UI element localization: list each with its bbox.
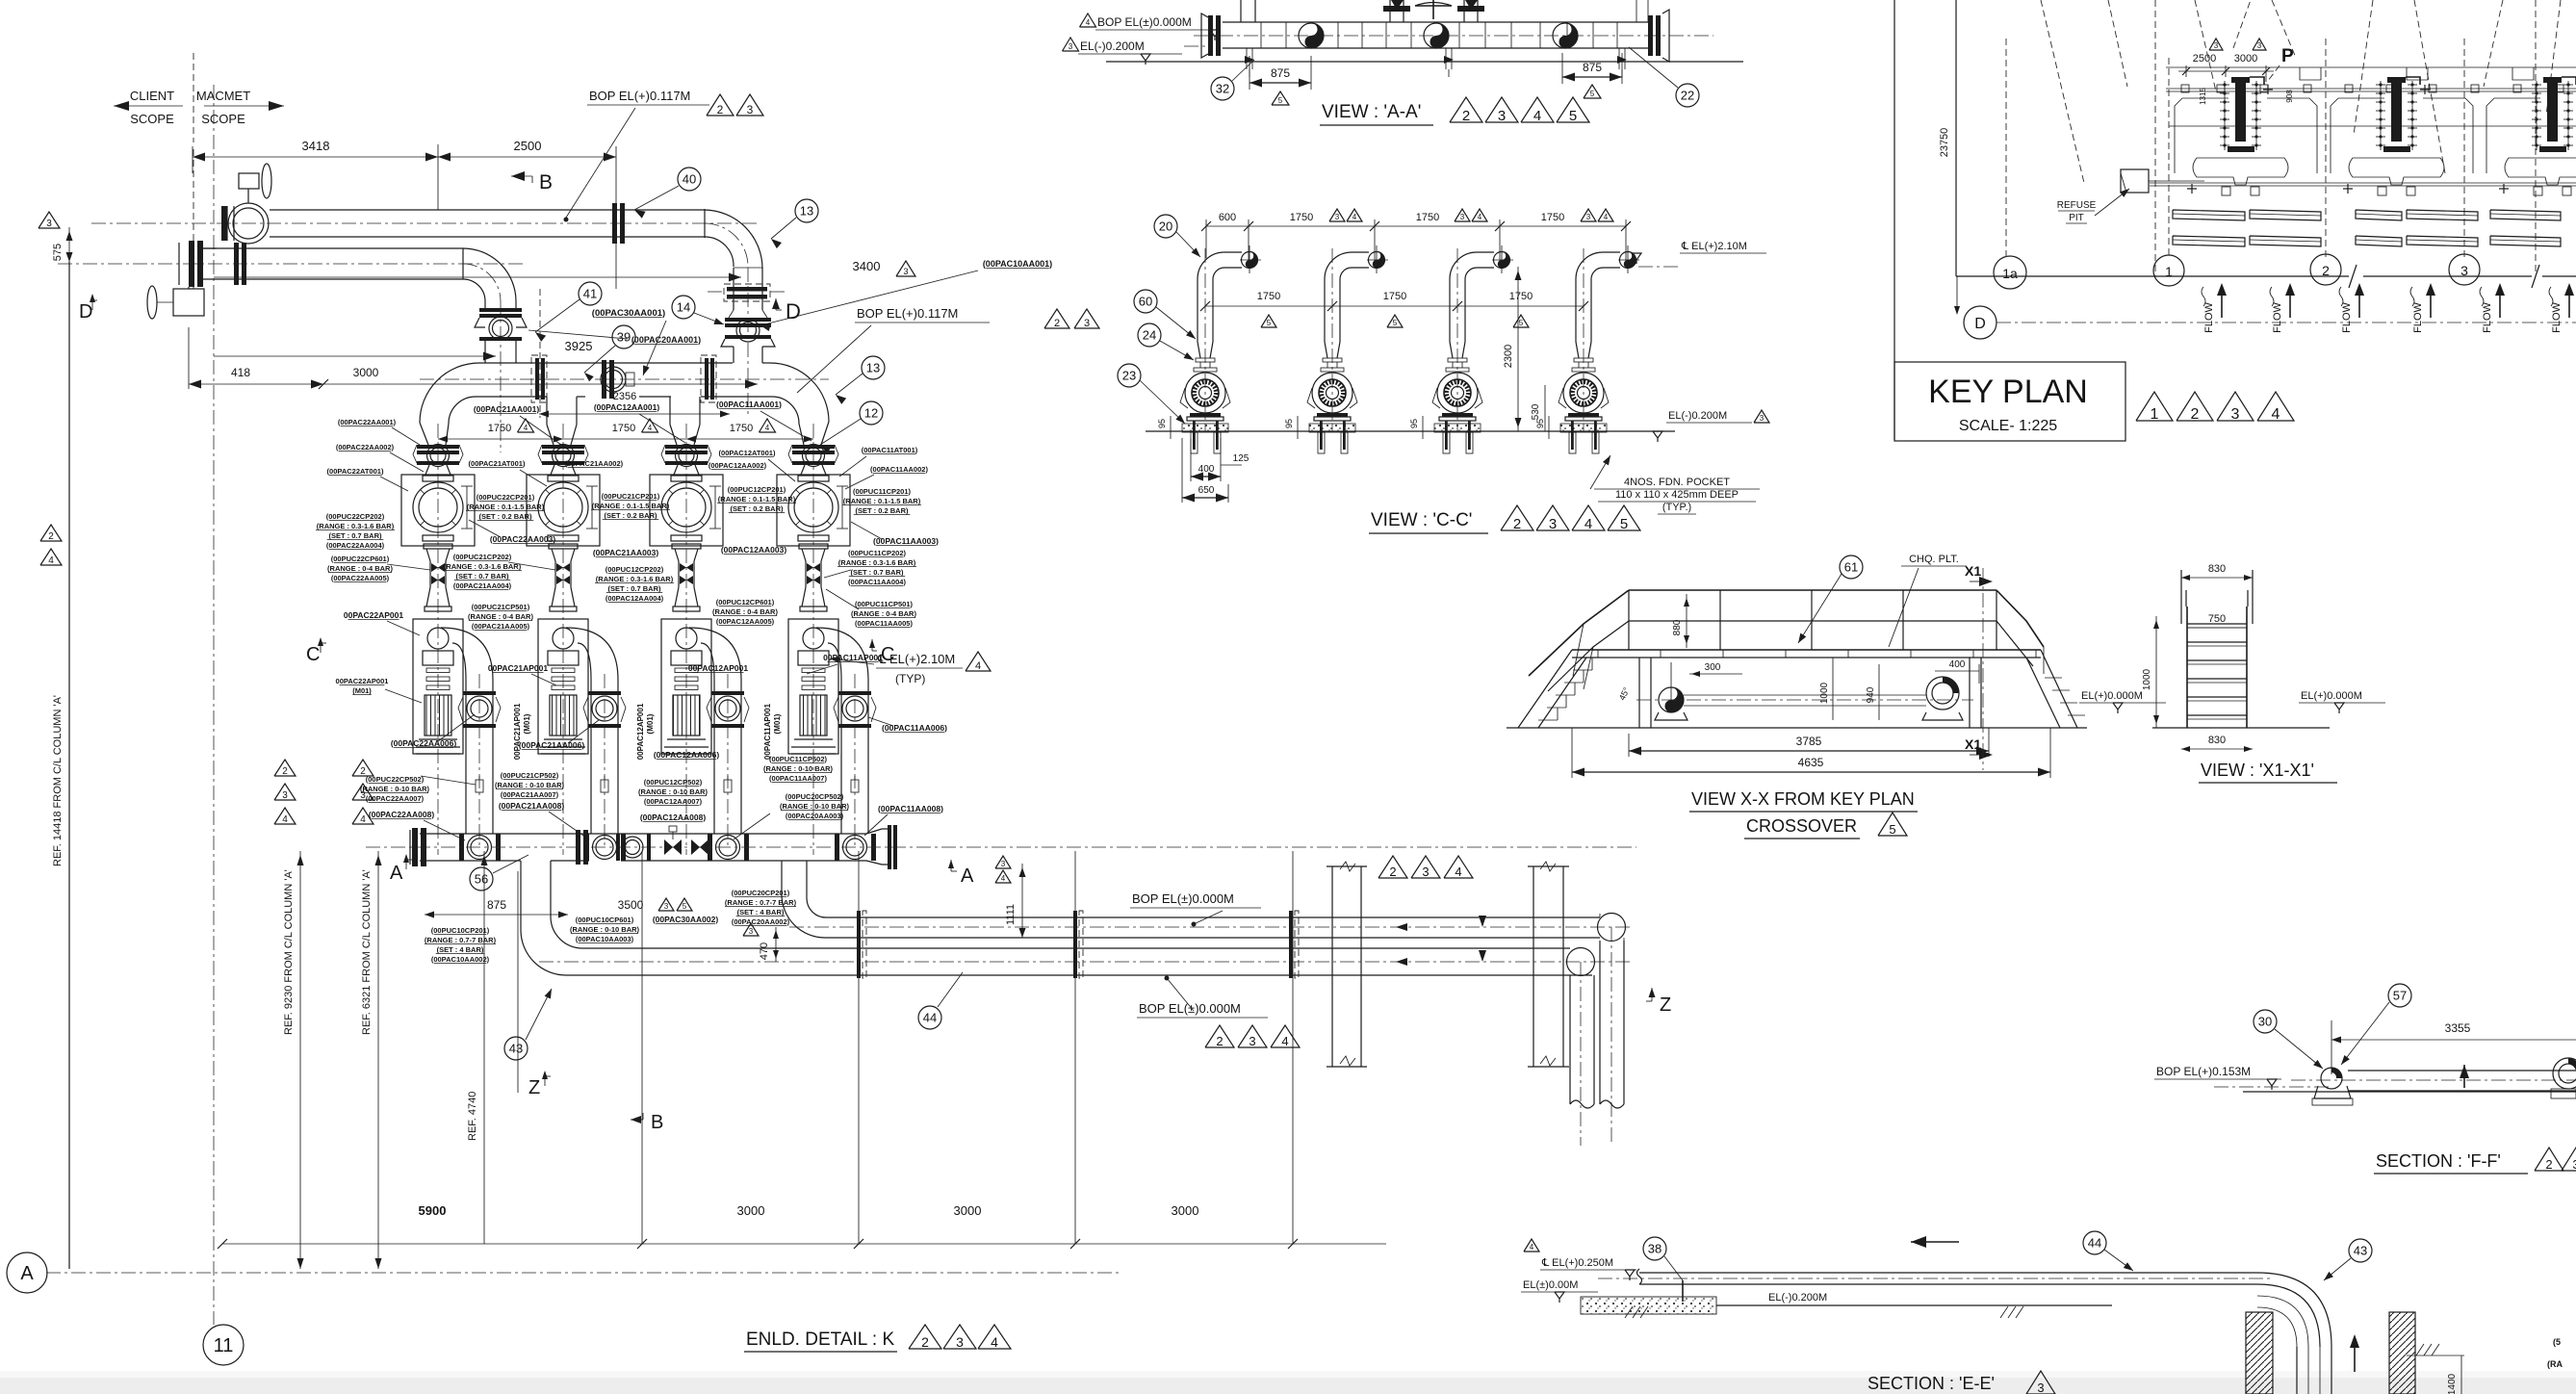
svg-text:VIEW : 'X1-X1': VIEW : 'X1-X1' bbox=[2201, 761, 2314, 780]
svg-text:44: 44 bbox=[923, 1011, 937, 1025]
svg-text:(RANGE : 0.3-1.6 BAR): (RANGE : 0.3-1.6 BAR) bbox=[317, 522, 395, 530]
crossover deck bbox=[1572, 649, 2041, 651]
svg-text:(00PAC11AA001): (00PAC11AA001) bbox=[716, 400, 782, 409]
svg-text:3: 3 bbox=[1422, 865, 1429, 879]
svg-text:4: 4 bbox=[1584, 516, 1592, 532]
crossover pipes below deck bbox=[1659, 687, 1684, 712]
svg-text:EL(-)0.200M: EL(-)0.200M bbox=[1668, 410, 1727, 422]
upper pipe vertical drop in plan bbox=[1599, 941, 1601, 1104]
train 12 inlet valve bbox=[665, 445, 708, 449]
svg-text:32: 32 bbox=[1216, 82, 1229, 96]
svg-text:(00PAC22AA002): (00PAC22AA002) bbox=[336, 443, 395, 452]
svg-text:300: 300 bbox=[1705, 662, 1721, 673]
view A-A weld ticks bbox=[1260, 22, 1262, 48]
svg-text:5: 5 bbox=[1889, 822, 1895, 837]
svg-text:C: C bbox=[306, 644, 320, 665]
balloon 44 bbox=[918, 1006, 941, 1029]
support column pair 1 bbox=[1331, 866, 1333, 1067]
svg-text:(SET : 0.2 BAR): (SET : 0.2 BAR) bbox=[478, 512, 532, 521]
svg-text:(00PAC11AT001): (00PAC11AT001) bbox=[862, 446, 918, 454]
svg-text:1a: 1a bbox=[2002, 266, 2018, 281]
train 21 discharge riser bbox=[590, 680, 592, 834]
train 12 discharge riser bbox=[713, 680, 715, 834]
svg-text:24: 24 bbox=[1143, 328, 1156, 343]
svg-text:(00PUC11CP201): (00PUC11CP201) bbox=[853, 487, 912, 496]
svg-text:CHQ. PLT.: CHQ. PLT. bbox=[1909, 554, 1959, 565]
section F-F pipe bbox=[2348, 1070, 2576, 1071]
svg-text:D: D bbox=[79, 301, 92, 323]
svg-text:22: 22 bbox=[1681, 89, 1694, 103]
svg-text:(00PAC12AA002): (00PAC12AA002) bbox=[708, 461, 767, 470]
svg-text:(RANGE : 0.3-1.6 BAR): (RANGE : 0.3-1.6 BAR) bbox=[596, 575, 674, 583]
svg-text:KEY PLAN: KEY PLAN bbox=[1928, 374, 2088, 410]
svg-text:(00PAC21AA006): (00PAC21AA006) bbox=[519, 740, 585, 750]
svg-text:(00PAC11AA002): (00PAC11AA002) bbox=[870, 465, 928, 474]
svg-text:2500: 2500 bbox=[514, 139, 542, 153]
section E-E foundation block bbox=[1581, 1297, 1716, 1314]
valve 39 on header bbox=[602, 360, 606, 399]
svg-text:00PAC11AP001: 00PAC11AP001 bbox=[763, 703, 772, 760]
marker D right bbox=[772, 298, 780, 309]
balloon 60 bbox=[1134, 290, 1157, 313]
svg-text:1750: 1750 bbox=[730, 423, 753, 434]
crossover dim 4635 bbox=[1571, 728, 1573, 778]
train 11 flow element box bbox=[777, 475, 850, 546]
svg-text:3: 3 bbox=[956, 1334, 964, 1350]
svg-text:4: 4 bbox=[1533, 108, 1541, 124]
view C-C dim 530 bbox=[1544, 385, 1546, 431]
train 11 riser valve bbox=[842, 696, 867, 721]
svg-text:400: 400 bbox=[1949, 659, 1966, 670]
svg-text:875: 875 bbox=[1583, 61, 1602, 74]
balloon 12 bbox=[860, 401, 883, 425]
svg-text:(00PUC22CP502): (00PUC22CP502) bbox=[366, 775, 425, 784]
train 21 manifold entry valve bbox=[584, 834, 589, 861]
svg-text:40: 40 bbox=[683, 172, 696, 187]
svg-text:(00PAC20AA002): (00PAC20AA002) bbox=[732, 917, 790, 926]
balloon 44 bbox=[2083, 1231, 2106, 1254]
key plan D grid line bbox=[1996, 322, 2576, 323]
section F-F left pipe shoe bbox=[2321, 1068, 2342, 1089]
svg-text:(00PUC10CP201): (00PUC10CP201) bbox=[431, 926, 490, 935]
pump train 12 centerline bbox=[685, 424, 687, 855]
pump train 22 centerline bbox=[437, 424, 439, 855]
svg-text:5: 5 bbox=[683, 902, 687, 911]
svg-text:00PAC12AP001: 00PAC12AP001 bbox=[636, 703, 645, 760]
svg-text:(00PAC22AA008): (00PAC22AA008) bbox=[369, 810, 435, 819]
svg-text:3: 3 bbox=[1586, 213, 1591, 221]
svg-text:BOP EL(±)0.000M: BOP EL(±)0.000M bbox=[1132, 891, 1234, 906]
C-C discharge stub circle at 1645 bbox=[1620, 252, 1636, 269]
svg-text:A: A bbox=[961, 865, 974, 887]
svg-text:SECTION : 'F-F': SECTION : 'F-F' bbox=[2376, 1151, 2501, 1171]
svg-text:3000: 3000 bbox=[353, 366, 379, 379]
view C-C dims below pump1 bbox=[1190, 438, 1192, 481]
svg-text:3418: 3418 bbox=[302, 139, 330, 153]
key plan pit outflow line bbox=[2150, 182, 2576, 184]
weld tick lower pipe bbox=[462, 248, 464, 279]
manifold fittings between valves bbox=[622, 837, 643, 858]
svg-text:5: 5 bbox=[1393, 319, 1398, 327]
svg-text:(M01): (M01) bbox=[352, 686, 372, 695]
svg-text:00PAC22AP001: 00PAC22AP001 bbox=[344, 610, 403, 620]
balloon 57 bbox=[2388, 984, 2411, 1007]
svg-text:FLOW: FLOW bbox=[2482, 301, 2493, 332]
svg-text:(00PAC12AA008): (00PAC12AA008) bbox=[640, 813, 707, 822]
view C-C dim row 1750 second bbox=[1205, 305, 1584, 307]
svg-text:(M01): (M01) bbox=[646, 713, 655, 734]
svg-text:20: 20 bbox=[1159, 219, 1172, 234]
svg-text:EL(-)0.200M: EL(-)0.200M bbox=[1080, 39, 1145, 53]
svg-text:5: 5 bbox=[1620, 516, 1628, 532]
key plan title box bbox=[1894, 362, 2125, 441]
svg-text:CROSSOVER: CROSSOVER bbox=[1746, 816, 1857, 836]
train 11 top drop bbox=[799, 424, 804, 445]
svg-text:41: 41 bbox=[583, 287, 597, 301]
svg-text:(SET : 4 BAR): (SET : 4 BAR) bbox=[437, 945, 484, 954]
svg-text:3000: 3000 bbox=[2234, 53, 2257, 65]
svg-text:3000: 3000 bbox=[1172, 1203, 1199, 1218]
X1-X1 dims bbox=[2181, 577, 2253, 579]
scope divider dash line bbox=[193, 149, 194, 289]
pipe 40 upper centerline bbox=[91, 222, 760, 224]
svg-text:56: 56 bbox=[475, 872, 488, 887]
svg-text:650: 650 bbox=[1198, 485, 1215, 496]
svg-text:2500: 2500 bbox=[2193, 53, 2216, 65]
svg-text:(00PAC12AA003): (00PAC12AA003) bbox=[721, 545, 787, 555]
svg-text:875: 875 bbox=[1271, 66, 1290, 80]
view A-A drains below pipe bbox=[1246, 48, 1248, 69]
C-C foundation pockets at 1384 bbox=[1318, 432, 1325, 453]
balloon 23 bbox=[1118, 364, 1141, 387]
svg-text:470: 470 bbox=[759, 942, 770, 960]
svg-text:125: 125 bbox=[1233, 453, 1249, 464]
svg-text:(00PAC21AA001): (00PAC21AA001) bbox=[474, 404, 540, 414]
train 12 outlet taper and control valves bbox=[672, 544, 701, 549]
C-C pump base at 1252 bbox=[1190, 413, 1221, 417]
svg-text:(SET : 4 BAR): (SET : 4 BAR) bbox=[737, 908, 785, 916]
svg-text:(SET : 0.7 BAR): (SET : 0.7 BAR) bbox=[328, 531, 382, 540]
svg-text:(TYP): (TYP) bbox=[895, 672, 925, 685]
train 11 discharge riser bbox=[840, 680, 842, 834]
svg-text:00PAC21AP001: 00PAC21AP001 bbox=[513, 703, 522, 760]
svg-text:BOP EL(+)0.117M: BOP EL(+)0.117M bbox=[857, 306, 958, 321]
svg-text:Z: Z bbox=[1660, 994, 1671, 1016]
svg-text:(SET : 0.2 BAR): (SET : 0.2 BAR) bbox=[730, 504, 784, 513]
svg-text:23: 23 bbox=[1122, 369, 1136, 383]
svg-text:(RANGE : 0.7-7 BAR): (RANGE : 0.7-7 BAR) bbox=[725, 898, 797, 907]
svg-text:(00PAC12AA006): (00PAC12AA006) bbox=[654, 750, 720, 760]
svg-text:BOP EL(+)0.153M: BOP EL(+)0.153M bbox=[2156, 1065, 2251, 1078]
balloon 40 bbox=[678, 168, 701, 191]
svg-text:BOP EL(+)0.117M: BOP EL(+)0.117M bbox=[589, 89, 690, 103]
svg-text:D: D bbox=[786, 299, 801, 323]
C-C pump riser at 1384 bbox=[1325, 252, 1369, 279]
svg-text:X1: X1 bbox=[1965, 736, 1981, 752]
svg-text:4: 4 bbox=[1530, 1243, 1534, 1252]
svg-text:(M01): (M01) bbox=[523, 713, 531, 734]
svg-text:3: 3 bbox=[1498, 108, 1506, 124]
svg-text:95: 95 bbox=[1157, 419, 1167, 428]
pump 22AP001 vertical inline pump bbox=[413, 619, 463, 754]
svg-text:13: 13 bbox=[800, 204, 813, 219]
key plan conveyor bands row2 bbox=[2173, 236, 2245, 246]
svg-text:(RANGE : 0.1-1.5 BAR): (RANGE : 0.1-1.5 BAR) bbox=[843, 497, 921, 505]
svg-text:(00PUC20CP502): (00PUC20CP502) bbox=[786, 792, 844, 801]
section F-F ground bbox=[2243, 1091, 2576, 1093]
C-C pump riser at 1252 bbox=[1198, 252, 1242, 279]
svg-text:00PAC11AP001: 00PAC11AP001 bbox=[823, 653, 883, 662]
svg-text:(SET : 0.2 BAR): (SET : 0.2 BAR) bbox=[604, 511, 657, 520]
dim 3925 bbox=[214, 355, 496, 357]
section F-F flow arrow bbox=[2460, 1065, 2469, 1078]
view A-A centre gate valve handwheel bbox=[1432, 0, 1434, 19]
svg-text:1750: 1750 bbox=[1383, 291, 1406, 302]
svg-text:(RANGE : 0.1-1.5 BAR): (RANGE : 0.1-1.5 BAR) bbox=[592, 502, 670, 510]
svg-text:B: B bbox=[651, 1112, 663, 1133]
svg-text:(SET : 0.7 BAR): (SET : 0.7 BAR) bbox=[607, 584, 661, 593]
svg-text:PIT: PIT bbox=[2069, 213, 2084, 223]
svg-text:(RANGE : 0-10 BAR): (RANGE : 0-10 BAR) bbox=[638, 787, 708, 796]
cluster funnel bbox=[2505, 158, 2576, 185]
valve 14 butterfly on drop bbox=[729, 310, 734, 318]
section E-E flow arrow left bbox=[1911, 1241, 1959, 1243]
balloon 30 bbox=[2254, 1010, 2277, 1033]
svg-text:(00PAC11AA007): (00PAC11AA007) bbox=[769, 774, 827, 783]
svg-text:3: 3 bbox=[1069, 42, 1073, 51]
manifold right drop bbox=[781, 861, 783, 894]
pipe 40 elbow down (item 13) bbox=[705, 210, 762, 269]
flange on pipe 40 at x640 bbox=[612, 203, 617, 244]
train 11 manifold entry valve bbox=[835, 834, 839, 861]
train 12 manifold entry valve bbox=[708, 834, 712, 861]
svg-text:(00PUC22CP201): (00PUC22CP201) bbox=[477, 493, 535, 502]
svg-text:BOP EL(±)0.000M: BOP EL(±)0.000M bbox=[1139, 1001, 1241, 1016]
triangles 2 4 left bbox=[40, 525, 62, 541]
manifold right end bbox=[866, 829, 888, 834]
svg-text:C: C bbox=[881, 644, 894, 665]
train 22 inlet valve bbox=[417, 445, 459, 449]
svg-text:EL(-)0.200M: EL(-)0.200M bbox=[1768, 1292, 1827, 1304]
svg-text:(RANGE : 0.3-1.6 BAR): (RANGE : 0.3-1.6 BAR) bbox=[838, 558, 916, 567]
section marker A right bbox=[948, 860, 954, 868]
key plan top edge tabs bbox=[2166, 66, 2576, 68]
long pipe lower run bbox=[566, 974, 1592, 976]
section E-E 1400 dim bbox=[2460, 1355, 2462, 1394]
marker C right bbox=[869, 639, 875, 648]
svg-text:(5: (5 bbox=[2553, 1337, 2561, 1347]
balloon 22 bbox=[1676, 84, 1699, 107]
svg-text:30: 30 bbox=[2258, 1015, 2272, 1029]
svg-text:(00PAC12AA004): (00PAC12AA004) bbox=[605, 594, 664, 603]
svg-text:VIEW X-X FROM KEY PLAN: VIEW X-X FROM KEY PLAN bbox=[1691, 789, 1915, 809]
svg-text:℄ EL(+)0.250M: ℄ EL(+)0.250M bbox=[1541, 1257, 1613, 1269]
train 22 outlet taper and control valves bbox=[424, 544, 452, 549]
section E-E downcomers bbox=[2296, 1347, 2298, 1394]
support column pair 2 bbox=[1533, 866, 1534, 1067]
train 12 riser instrument tap bbox=[724, 780, 732, 792]
svg-text:4: 4 bbox=[991, 1334, 998, 1350]
svg-text:4: 4 bbox=[360, 814, 366, 825]
ref 4740 dim line bbox=[483, 851, 485, 1244]
flange on lower pipe x248 bbox=[234, 243, 239, 285]
svg-text:3: 3 bbox=[1760, 414, 1765, 423]
svg-text:1750: 1750 bbox=[1290, 212, 1313, 223]
pipe 44 lower run bbox=[203, 247, 463, 249]
svg-text:13: 13 bbox=[866, 361, 880, 375]
key plan conveyor bands row1 bbox=[2173, 210, 2245, 220]
key plan outer west wall bbox=[1955, 0, 1957, 276]
train 12 discharge elbow bbox=[689, 628, 741, 680]
C-C pump base at 1645 bbox=[1568, 413, 1599, 417]
svg-text:3: 3 bbox=[1460, 213, 1465, 221]
svg-text:1400: 1400 bbox=[2447, 1373, 2458, 1394]
svg-text:5: 5 bbox=[1278, 96, 1283, 105]
train 21 discharge elbow bbox=[566, 628, 618, 680]
svg-text:880: 880 bbox=[1672, 619, 1683, 635]
svg-text:1111: 1111 bbox=[1005, 904, 1017, 925]
key plan bottom boundary line bbox=[1956, 275, 2349, 277]
train 12 instrument bracket bbox=[714, 486, 716, 529]
svg-text:1: 1 bbox=[2151, 406, 2159, 423]
flange pairs across long pipes bbox=[857, 911, 861, 978]
train 22 instrument bracket bbox=[466, 486, 468, 529]
svg-text:(00PUC11CP501): (00PUC11CP501) bbox=[855, 600, 914, 608]
crossover left stair steps bbox=[1538, 719, 1558, 721]
svg-text:830: 830 bbox=[2208, 735, 2226, 746]
svg-text:(00PAC22AA007): (00PAC22AA007) bbox=[366, 794, 425, 803]
key plan grid bubbles bbox=[1994, 256, 2026, 289]
svg-text:2: 2 bbox=[1389, 865, 1396, 879]
svg-text:(00PUC12CP201): (00PUC12CP201) bbox=[728, 485, 786, 494]
svg-text:(RANGE : 0-10 BAR): (RANGE : 0-10 BAR) bbox=[780, 802, 850, 811]
svg-text:(00PAC11AA004): (00PAC11AA004) bbox=[848, 578, 906, 586]
svg-text:1750: 1750 bbox=[1257, 291, 1280, 302]
section E-E pipe run bbox=[1639, 1272, 2257, 1274]
svg-text:3: 3 bbox=[2231, 406, 2240, 423]
C-C discharge stub circle at 1514 bbox=[1494, 252, 1510, 269]
svg-text:5: 5 bbox=[1590, 90, 1595, 98]
key plan refuse pit bbox=[2121, 169, 2149, 193]
view C-C ground line bbox=[1146, 430, 1675, 432]
svg-text:875: 875 bbox=[487, 898, 506, 912]
balloon 43 bbox=[2349, 1239, 2372, 1262]
suction header horizontal bbox=[479, 362, 733, 364]
pump train 11 centerline bbox=[812, 424, 814, 855]
svg-text:3: 3 bbox=[2214, 41, 2219, 50]
balloon 14 bbox=[672, 296, 695, 319]
svg-text:3500: 3500 bbox=[618, 898, 644, 912]
svg-text:SCALE- 1:225: SCALE- 1:225 bbox=[1959, 418, 2057, 434]
svg-text:(00PAC21AA007): (00PAC21AA007) bbox=[501, 790, 559, 799]
svg-text:VIEW : 'A-A': VIEW : 'A-A' bbox=[1322, 102, 1421, 122]
svg-text:(00PUC21CP201): (00PUC21CP201) bbox=[602, 492, 660, 501]
key plan column dashed lines bbox=[2005, 39, 2007, 260]
svg-text:(00PAC20AA001): (00PAC20AA001) bbox=[631, 335, 701, 345]
long pipe upper run BOP 0.000 bbox=[825, 937, 1600, 939]
svg-text:1750: 1750 bbox=[1509, 291, 1533, 302]
train 11 instrument bracket bbox=[841, 486, 843, 529]
svg-text:(00PAC21AA002): (00PAC21AA002) bbox=[565, 459, 624, 468]
pump 12AP001 vertical inline pump bbox=[661, 619, 711, 754]
view C-C dim row top bbox=[1205, 219, 1207, 258]
svg-text:(SET : 0.2 BAR): (SET : 0.2 BAR) bbox=[855, 506, 909, 515]
train 12 riser valve bbox=[715, 696, 740, 721]
crossover posts bbox=[1628, 590, 1630, 650]
svg-text:(RANGE : 0-4 BAR): (RANGE : 0-4 BAR) bbox=[468, 612, 533, 621]
svg-text:5: 5 bbox=[1267, 319, 1272, 327]
C-C pump riser at 1645 bbox=[1576, 252, 1620, 279]
svg-text:(SET : 0.7 BAR): (SET : 0.7 BAR) bbox=[455, 572, 509, 581]
svg-text:(00PAC12AA007): (00PAC12AA007) bbox=[644, 797, 703, 806]
svg-text:(00PAC30AA002): (00PAC30AA002) bbox=[653, 915, 719, 924]
drop to valve 41 bbox=[484, 301, 486, 308]
svg-text:A: A bbox=[20, 1263, 34, 1284]
svg-text:4: 4 bbox=[765, 424, 770, 432]
svg-text:(00PAC21AT001): (00PAC21AT001) bbox=[469, 459, 526, 468]
svg-text:(RANGE : 0-10 BAR): (RANGE : 0-10 BAR) bbox=[360, 785, 430, 793]
svg-text:3000: 3000 bbox=[954, 1203, 982, 1218]
X1-X1 rungs bbox=[2187, 623, 2247, 625]
svg-text:(00PUC21CP501): (00PUC21CP501) bbox=[472, 603, 530, 611]
svg-text:2: 2 bbox=[1462, 108, 1470, 124]
svg-text:(00PAC10AA003): (00PAC10AA003) bbox=[576, 935, 634, 943]
svg-text:(00PAC11AA006): (00PAC11AA006) bbox=[882, 723, 947, 733]
svg-text:(RA: (RA bbox=[2547, 1359, 2563, 1369]
view A-A dim 875 right bbox=[1561, 53, 1563, 84]
train 21 riser instrument tap bbox=[601, 780, 608, 792]
C-C discharge stub circle at 1252 bbox=[1242, 252, 1258, 269]
svg-text:908: 908 bbox=[2285, 90, 2294, 103]
train 22 riser valve bbox=[467, 696, 492, 721]
view A-A dim 875 left bbox=[1249, 56, 1250, 90]
svg-text:2: 2 bbox=[1216, 1034, 1223, 1048]
svg-text:(00PAC22AA004): (00PAC22AA004) bbox=[326, 541, 385, 550]
svg-text:(00PAC11AA003): (00PAC11AA003) bbox=[873, 536, 939, 546]
svg-text:(00PUC21CP502): (00PUC21CP502) bbox=[501, 771, 559, 780]
key plan rack line with nodes bbox=[2166, 88, 2576, 90]
svg-text:REFUSE: REFUSE bbox=[2057, 200, 2097, 211]
manifold left end cap bbox=[412, 828, 418, 866]
svg-text:(RANGE : 0.3-1.6 BAR): (RANGE : 0.3-1.6 BAR) bbox=[444, 562, 522, 571]
svg-text:FLOW: FLOW bbox=[2412, 301, 2424, 332]
svg-text:4: 4 bbox=[2272, 406, 2280, 423]
svg-text:4: 4 bbox=[975, 660, 981, 672]
svg-text:400: 400 bbox=[1198, 464, 1215, 475]
svg-text:(00PAC21AA004): (00PAC21AA004) bbox=[453, 581, 512, 590]
svg-text:38: 38 bbox=[1648, 1242, 1662, 1256]
cluster funnel bbox=[2349, 158, 2444, 185]
svg-text:REF. 9230 FROM C/L COLUMN 'A': REF. 9230 FROM C/L COLUMN 'A' bbox=[283, 869, 295, 1035]
svg-text:(00PAC10AA002): (00PAC10AA002) bbox=[431, 955, 490, 964]
section F-F right pump partial bbox=[2553, 1058, 2576, 1089]
train 21 flow element box bbox=[527, 475, 600, 546]
train 11 outlet taper and control valves bbox=[799, 544, 828, 549]
balloon 41 bbox=[579, 282, 602, 305]
svg-text:3: 3 bbox=[903, 267, 908, 276]
svg-text:(RANGE : 0-10 BAR): (RANGE : 0-10 BAR) bbox=[495, 781, 565, 789]
dim row 3418 / 2500 bbox=[192, 146, 193, 173]
svg-text:(M01): (M01) bbox=[773, 713, 782, 734]
balloon 13 bbox=[862, 356, 885, 379]
C-C riser pipe at 1252 bbox=[1197, 279, 1198, 342]
svg-text:1750: 1750 bbox=[1541, 212, 1564, 223]
svg-text:REF. 4740: REF. 4740 bbox=[467, 1092, 478, 1141]
view A-A level labels bbox=[1080, 13, 1096, 27]
svg-text:3: 3 bbox=[1084, 318, 1090, 329]
svg-text:4: 4 bbox=[524, 424, 528, 432]
svg-text:REF. 6321 FROM C/L COLUMN 'A': REF. 6321 FROM C/L COLUMN 'A' bbox=[361, 869, 373, 1035]
